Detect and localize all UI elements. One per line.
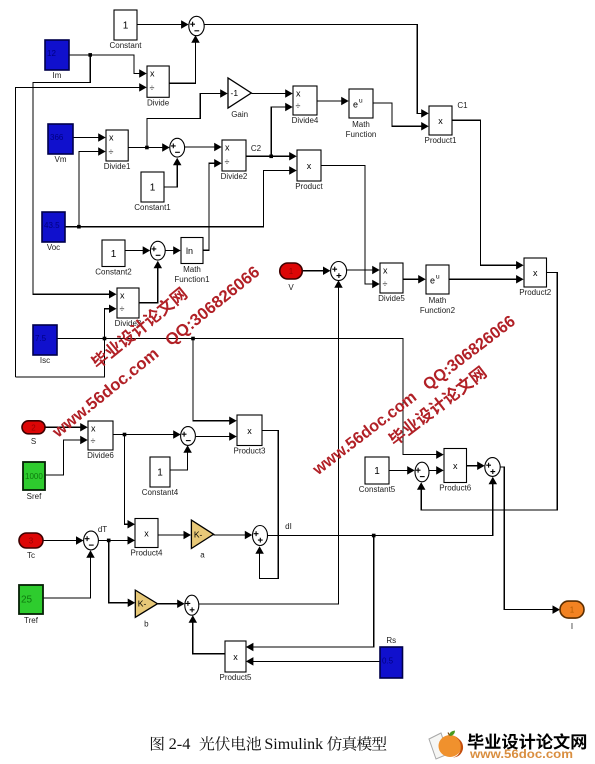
svg-text:x: x (383, 266, 388, 276)
product block Product (295, 150, 323, 191)
svg-text:Divide1: Divide1 (104, 162, 131, 171)
divide block Divide2 (221, 140, 248, 181)
wire Rs to Product5 in2 (246, 657, 381, 666)
svg-text:Product2: Product2 (519, 288, 552, 297)
math function block Math Function (e^u) (346, 89, 377, 139)
figure caption (151, 737, 164, 751)
blue source block Im (45, 40, 69, 80)
wire Sum4 out to Divide5 X input (347, 266, 380, 275)
svg-text:-1: -1 (231, 88, 239, 98)
svg-text:43.5: 43.5 (44, 221, 60, 230)
wire V to Sum4 (302, 267, 331, 276)
svg-text:a: a (200, 551, 205, 560)
wire Sum2 out to Divide2 X input (185, 143, 222, 152)
svg-text:7.5: 7.5 (35, 334, 47, 343)
svg-text:x: x (453, 461, 458, 471)
wire Divide2 out (C2) to Product in1 (246, 152, 297, 161)
wire Product3 out down to Sum7 bottom (255, 431, 278, 579)
port oval I (560, 601, 584, 631)
svg-text:Voc: Voc (47, 243, 60, 252)
svg-text:0.5: 0.5 (382, 657, 394, 666)
watermark 1 line 1 (89, 285, 189, 370)
wire S to Divide6 X input (45, 423, 88, 432)
wire Sum8 out to Product6 in2 (429, 466, 444, 475)
svg-text:366: 366 (50, 133, 64, 142)
wire Sum6 out (dT) to Product4 in2 (99, 536, 135, 545)
port oval Tc (19, 533, 43, 560)
svg-text:Product1: Product1 (424, 136, 457, 145)
wire Isc branch down to left feedback rail (16, 339, 105, 378)
svg-text:x: x (296, 89, 301, 99)
svg-text:C1: C1 (457, 101, 468, 110)
wire Divide6 branch down to Product4 in1 (125, 435, 136, 529)
svg-text:b: b (144, 619, 149, 628)
svg-text:u: u (436, 274, 440, 281)
constant block Constant value 1 (109, 10, 142, 50)
svg-text:Constant: Constant (109, 41, 142, 50)
svg-text:1: 1 (374, 466, 380, 477)
svg-text:Isc: Isc (40, 356, 50, 365)
svg-text:Math: Math (183, 265, 201, 274)
divide block Divide (147, 66, 170, 107)
constant block Constant4 value 1 (142, 457, 179, 497)
wire Math Function2 out to Product2 in2 (449, 275, 524, 284)
wire Sref to Divide6 divisor input (45, 436, 88, 475)
svg-text:V: V (288, 283, 294, 292)
svg-text:Im: Im (53, 71, 62, 80)
svg-text:Product4: Product4 (130, 549, 163, 558)
svg-text:Divide6: Divide6 (87, 451, 114, 460)
sum block Sum6 (84, 531, 99, 550)
svg-text:Vm: Vm (55, 155, 67, 164)
svg-text:x: x (91, 424, 96, 434)
svg-text:÷: ÷ (383, 279, 388, 289)
wire dT branch down to Gain b input (109, 540, 136, 607)
wire Divide6 out to Sum5 (113, 430, 181, 439)
svg-text:e: e (430, 276, 435, 286)
sum block Sum9 (485, 458, 500, 477)
svg-text:Function2: Function2 (420, 306, 456, 315)
svg-text:x: x (150, 69, 155, 79)
green source block Tref (19, 585, 43, 625)
svg-text:Function: Function (346, 130, 377, 139)
svg-text:e: e (353, 100, 358, 110)
svg-text:ln: ln (186, 246, 193, 256)
svg-text:dT: dT (98, 525, 107, 534)
wire Isc out across to Product6 in1 (57, 337, 444, 459)
svg-text:2-4: 2-4 (169, 736, 191, 753)
wire Divide1 out to Sum2 (128, 143, 170, 152)
wire Product6 out to Sum9 (466, 462, 484, 471)
sum block Sum4 (331, 262, 347, 281)
svg-text:÷: ÷ (296, 101, 301, 111)
svg-text:Product6: Product6 (439, 484, 472, 493)
svg-text:u: u (359, 98, 363, 105)
svg-text:25: 25 (21, 595, 33, 606)
svg-text:1000: 1000 (25, 472, 43, 481)
port oval S (22, 421, 45, 446)
math function block Math Function2 (e^u) (420, 265, 456, 315)
svg-text:÷: ÷ (120, 304, 125, 314)
green source block Sref (23, 462, 45, 501)
wire Divide3 out to Sum3 bottom (139, 261, 162, 303)
product block Product5 (219, 641, 252, 682)
svg-text:Rs: Rs (386, 636, 396, 645)
svg-text:12: 12 (47, 49, 56, 58)
wire Constant to Sum1 (137, 20, 189, 29)
sum block Sum8 (415, 462, 429, 482)
svg-text:x: x (233, 652, 238, 662)
svg-text:Divide: Divide (147, 98, 170, 107)
svg-text:1: 1 (289, 267, 294, 276)
wire Product out to Divide5 divisor input (321, 166, 380, 289)
svg-text:1: 1 (157, 468, 163, 479)
divide block Divide3 (115, 288, 142, 328)
svg-text:Constant4: Constant4 (142, 488, 179, 497)
gain triangle Gain value -1 (228, 78, 251, 119)
sum block Sum3 (150, 241, 165, 260)
svg-text:÷: ÷ (109, 147, 114, 157)
wire Product1 out (C1) to Product2 in1 (452, 120, 524, 269)
product block Product4 (130, 519, 163, 558)
wire Gain out to Divide4 X input (251, 89, 292, 98)
sum block Sum10 (185, 595, 199, 615)
wire Sum5 out to Product3 in2 (196, 432, 237, 441)
wire C2 branch up to Divide4 divisor input (271, 103, 293, 157)
svg-text:Product3: Product3 (233, 447, 266, 456)
site logo text (468, 733, 586, 749)
wire Voc branch to Product in2 (79, 166, 297, 226)
blue source block Voc (42, 212, 65, 252)
wire Voc to Divide1 divisor input (65, 147, 106, 228)
svg-text:www.56doc.com QQ:306826066: www.56doc.com QQ:306826066 (48, 263, 263, 442)
blue source block Vm (48, 124, 73, 164)
svg-text:Simulink: Simulink (264, 736, 323, 753)
wire Gain a out to Sum7 (214, 531, 253, 540)
svg-text:x: x (120, 291, 125, 301)
divide block Divide5 (378, 263, 405, 303)
wire Divide out to Sum1 bottom (169, 35, 200, 83)
svg-text:S: S (31, 437, 36, 446)
wire Constant2 to Sum3 (125, 246, 150, 255)
wire Math Function out to Product1 in2 (373, 103, 429, 131)
divide block Divide4 (292, 86, 319, 125)
constant block Constant1 value 1 (134, 172, 171, 212)
svg-text:÷: ÷ (150, 83, 155, 93)
wire Constant1 to Sum2 bottom (164, 158, 181, 187)
wire Vm to Divide1 X input (73, 133, 106, 142)
svg-text:Math: Math (429, 296, 447, 305)
svg-text:Function1: Function1 (174, 275, 210, 284)
svg-text:Constant5: Constant5 (359, 485, 396, 494)
svg-text:Tc: Tc (27, 551, 35, 560)
svg-text:Sref: Sref (27, 492, 42, 501)
wire Product4 out to Gain a input (158, 531, 191, 540)
svg-text:www.56doc.com: www.56doc.com (469, 749, 573, 761)
svg-text:x: x (144, 529, 149, 539)
wire Im to Divide X input (69, 55, 147, 78)
constant block Constant5 value 1 (359, 457, 396, 494)
svg-text:K-: K- (138, 599, 147, 609)
svg-text:x: x (307, 161, 312, 171)
svg-text:Divide2: Divide2 (221, 172, 248, 181)
wire Sum3 out to Math Function1 (ln) input (165, 246, 180, 255)
svg-text:x: x (247, 426, 252, 436)
site logo graphic (428, 728, 468, 762)
svg-text:1: 1 (123, 21, 129, 32)
wire Sum7 out (dI) to Sum9 bottom (268, 477, 497, 538)
svg-text:Divide5: Divide5 (378, 294, 405, 303)
constant block Constant2 value 1 (95, 240, 132, 277)
divide block Divide1 (104, 130, 131, 171)
svg-text:Tref: Tref (24, 616, 39, 625)
wire Divide5 out to Math Function2 input (403, 275, 426, 284)
product block Product1 (424, 106, 457, 145)
sum block Sum1 (189, 16, 204, 35)
svg-text:1: 1 (570, 606, 575, 615)
wire Product2 out to Sum8 bottom (417, 273, 557, 510)
product block Product3 (233, 415, 266, 456)
svg-text:Gain: Gain (231, 110, 248, 119)
svg-text:Constant2: Constant2 (95, 268, 132, 277)
wire MathFunction1 out to Divide2 divisor input (203, 159, 222, 250)
svg-text:Product: Product (295, 182, 323, 191)
svg-text:x: x (109, 133, 114, 143)
svg-text:Divide4: Divide4 (292, 116, 319, 125)
divide block Divide6 (87, 421, 114, 460)
wire Tref to Sum6 bottom (42, 550, 94, 598)
svg-text:1: 1 (111, 249, 117, 260)
wire Im branch to Divide3 X input (33, 53, 117, 298)
gain triangle b value K- (135, 590, 157, 628)
wire Divide1 branch to Gain input (145, 89, 228, 149)
wire Sum10 out up to Sum4 bottom (199, 280, 343, 604)
wire Tc to Sum6 (43, 536, 84, 545)
wire Sum1 out to Product1 in1 (204, 25, 428, 118)
svg-text:dI: dI (285, 522, 292, 531)
product block Product6 (439, 449, 472, 493)
port oval V (280, 263, 303, 292)
svg-text:÷: ÷ (91, 436, 96, 446)
svg-text:Product5: Product5 (219, 673, 252, 682)
watermark 2 line 2 (386, 364, 488, 447)
wire Isc branch up to Divide3 divisor input (105, 304, 117, 338)
wire Gain b out to Sum10 (158, 599, 185, 608)
svg-text:C2: C2 (251, 144, 262, 153)
wire dI branch down to Product5 in1 (246, 536, 374, 652)
sum block Sum5 (181, 427, 196, 446)
svg-text:2: 2 (31, 423, 36, 432)
svg-text:÷: ÷ (225, 157, 230, 167)
svg-text:x: x (533, 268, 538, 278)
wire Product5 out to Sum10 bottom (189, 615, 226, 654)
svg-text:1: 1 (150, 183, 156, 194)
svg-text:Math: Math (352, 120, 370, 129)
svg-text:3: 3 (29, 537, 34, 546)
wire Isc loop to Divide divisor input (16, 83, 147, 377)
svg-text:x: x (225, 143, 230, 153)
blue source block Rs (380, 636, 403, 678)
wire Isc branch down to Product3 in1 (193, 339, 237, 425)
gain triangle a value K- (191, 520, 213, 559)
product block Product2 (519, 258, 552, 297)
math function block Math Function1 (ln) (174, 238, 210, 285)
wire Constant4 to Sum5 bottom (170, 445, 192, 470)
blue source block Isc (33, 325, 57, 365)
svg-text:I: I (571, 622, 573, 631)
wire Divide4 out to Math Function input (317, 97, 349, 106)
svg-text:K-: K- (194, 529, 203, 539)
svg-text:x: x (438, 116, 443, 126)
sum block Sum7 (253, 526, 268, 546)
sum block Sum2 (170, 138, 185, 157)
wire Sum9 out (I) down to output port I (500, 467, 560, 614)
svg-text:Constant1: Constant1 (134, 203, 171, 212)
wire Constant5 to Sum8 (389, 466, 414, 475)
